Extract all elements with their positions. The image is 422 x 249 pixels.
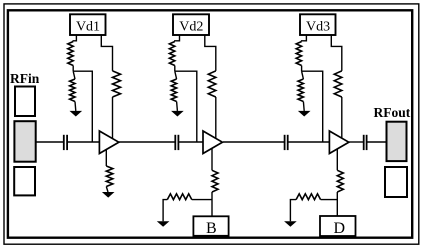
svg-text:RFin: RFin [10, 71, 40, 86]
svg-text:Vd2: Vd2 [179, 20, 203, 35]
svg-text:D: D [334, 220, 346, 237]
svg-text:Vd3: Vd3 [306, 20, 330, 35]
svg-text:RFout: RFout [374, 105, 411, 120]
svg-text:Vd1: Vd1 [76, 20, 100, 35]
svg-text:B: B [206, 220, 217, 237]
